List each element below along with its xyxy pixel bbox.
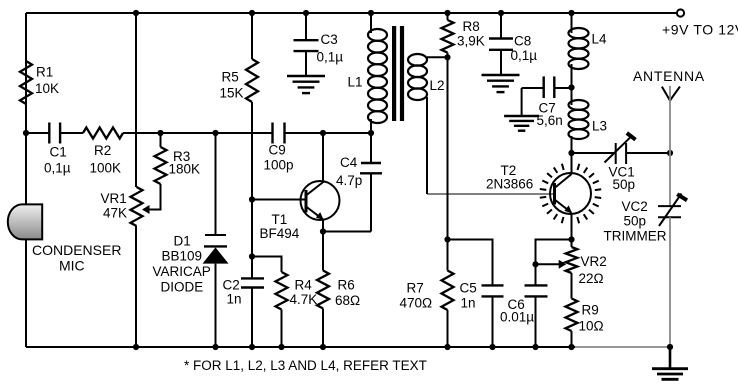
resistor R6 bbox=[317, 271, 329, 309]
node T2 emitter junction bbox=[568, 236, 574, 242]
svg-text:0,1µ: 0,1µ bbox=[511, 48, 538, 63]
svg-text:L1: L1 bbox=[348, 75, 363, 90]
wire C5 to bottom rail bbox=[492, 296, 494, 347]
wire left rail bbox=[25, 13, 27, 347]
node C6 bottom rail bbox=[532, 344, 538, 350]
varicap D1 bbox=[205, 234, 226, 236]
svg-text:50p: 50p bbox=[613, 177, 636, 192]
ground C7 bbox=[521, 88, 523, 116]
svg-text:VARICAP: VARICAP bbox=[153, 264, 211, 279]
resistor R2 bbox=[83, 128, 123, 139]
wire R6 top lead bbox=[322, 232, 324, 271]
svg-text:C5: C5 bbox=[460, 281, 477, 296]
transistor T2 heatsink burst bbox=[595, 188, 601, 191]
svg-text:1n: 1n bbox=[461, 296, 476, 311]
node R9 bottom rail bbox=[568, 344, 574, 350]
svg-text:68Ω: 68Ω bbox=[335, 293, 360, 308]
wire L2 to T2 base bbox=[427, 193, 553, 195]
node ground rail antenna bbox=[667, 344, 673, 350]
svg-text:22Ω: 22Ω bbox=[579, 271, 604, 286]
wire junction to C5 bbox=[448, 240, 493, 286]
wiper VR1 arrow bbox=[148, 209, 161, 211]
wire R8 bottom lead bbox=[447, 53, 449, 58]
wire C2 to bottom rail bbox=[251, 288, 253, 348]
wire collector junction to VC1 bbox=[572, 152, 616, 154]
potentiometer VR1 bbox=[131, 187, 143, 226]
node C5 bottom rail bbox=[489, 344, 495, 350]
wire C7 to L3 L4 junction bbox=[554, 87, 571, 89]
svg-text:CONDENSER: CONDENSER bbox=[32, 242, 121, 258]
wire T2 emitter bbox=[571, 213, 573, 240]
svg-text:4.7p: 4.7p bbox=[336, 173, 362, 188]
node R4 bottom rail bbox=[278, 344, 284, 350]
node top rail L1 bbox=[368, 10, 374, 16]
resistor R7 bbox=[442, 271, 454, 311]
wire T1 collector bbox=[322, 133, 324, 183]
svg-text:50p: 50p bbox=[624, 213, 647, 228]
svg-text:VR2: VR2 bbox=[581, 254, 607, 269]
svg-text:VC2: VC2 bbox=[622, 199, 648, 214]
wire audio line left bbox=[26, 132, 49, 134]
svg-text:0,1µ: 0,1µ bbox=[317, 50, 344, 65]
svg-text:R7: R7 bbox=[407, 281, 424, 296]
svg-text:180K: 180K bbox=[169, 162, 201, 177]
wire R4 bottom lead bbox=[281, 310, 283, 348]
node top rail L4 bbox=[568, 10, 574, 16]
inductor L2 bbox=[427, 56, 448, 58]
svg-text:MIC: MIC bbox=[59, 258, 85, 274]
svg-text:VR1: VR1 bbox=[101, 191, 127, 206]
wire VC1 to antenna pole bbox=[626, 152, 670, 154]
wire VR2 to R9 bbox=[571, 273, 573, 299]
svg-text:C8: C8 bbox=[514, 33, 531, 48]
svg-text:R9: R9 bbox=[582, 303, 599, 318]
wire emitter to C4 bbox=[323, 231, 371, 233]
node R7 bottom rail bbox=[444, 344, 450, 350]
resistor R9 bbox=[566, 299, 578, 332]
svg-text:L4: L4 bbox=[592, 32, 608, 47]
capacitor C6 bbox=[535, 264, 537, 285]
wire C1 to R2 bbox=[60, 132, 83, 134]
transistor T1 bbox=[301, 181, 340, 220]
svg-text:BB109: BB109 bbox=[162, 249, 203, 264]
wire D1 bottom lead bbox=[215, 264, 217, 347]
svg-text:100K: 100K bbox=[90, 161, 122, 176]
capacitor C4 bbox=[361, 162, 381, 164]
capacitor C3 bbox=[305, 13, 307, 40]
capacitor C1 bbox=[48, 123, 50, 144]
svg-text:R4: R4 bbox=[295, 278, 313, 293]
svg-text:R2: R2 bbox=[94, 143, 111, 158]
ground C3 bbox=[287, 75, 325, 77]
svg-text:R6: R6 bbox=[338, 278, 355, 293]
inductor L1 bbox=[370, 13, 372, 33]
resistor R1 bbox=[20, 61, 32, 104]
capacitor C9 bbox=[271, 123, 273, 144]
capacitor C7 bbox=[543, 76, 545, 98]
svg-text:5,6n: 5,6n bbox=[537, 113, 563, 128]
svg-text:T1: T1 bbox=[272, 212, 288, 227]
wire T2 collector bbox=[571, 153, 573, 174]
svg-text:3,9K: 3,9K bbox=[457, 34, 485, 49]
inductor L3 bbox=[571, 88, 573, 106]
wire C9 to L1 bottom bbox=[285, 132, 372, 134]
svg-text:L2: L2 bbox=[430, 78, 445, 93]
node T1 collector junction bbox=[320, 130, 326, 136]
node D1 top junction bbox=[212, 130, 218, 136]
svg-text:0,1µ: 0,1µ bbox=[44, 161, 71, 176]
wire top +V rail bbox=[26, 12, 677, 14]
node R8 L2 junction bbox=[444, 54, 450, 60]
node left-rail/audio junction bbox=[23, 130, 29, 136]
node VR1 bottom rail bbox=[133, 344, 139, 350]
wire base junction to C2 junction bbox=[251, 200, 253, 257]
wire bottom rail gray segment bbox=[575, 346, 670, 348]
svg-text:C9: C9 bbox=[269, 143, 286, 158]
node R3 top junction bbox=[157, 130, 163, 136]
resistor R8 bbox=[442, 20, 454, 53]
wire R3 top lead bbox=[160, 133, 162, 147]
resistor R4 bbox=[276, 272, 288, 310]
capacitor C2 bbox=[241, 277, 264, 279]
svg-text:100p: 100p bbox=[264, 158, 294, 173]
wire R7 bottom lead bbox=[447, 310, 449, 347]
svg-text:470Ω: 470Ω bbox=[400, 296, 433, 311]
svg-text:R1: R1 bbox=[36, 65, 53, 80]
svg-text:4.7K: 4.7K bbox=[290, 292, 318, 307]
svg-text:10K: 10K bbox=[35, 81, 59, 96]
node top rail C8 bbox=[498, 10, 504, 16]
svg-text:D1: D1 bbox=[174, 234, 191, 249]
potentiometer VR2 bbox=[566, 247, 578, 273]
svg-text:L3: L3 bbox=[592, 119, 607, 134]
svg-text:BF494: BF494 bbox=[260, 226, 300, 241]
wire T1 emitter bbox=[322, 219, 324, 232]
svg-text:DIODE: DIODE bbox=[161, 280, 204, 295]
node R6 bottom rail bbox=[320, 344, 326, 350]
wire R6 bottom lead bbox=[322, 309, 324, 348]
wire antenna pole to VC2 bbox=[669, 153, 671, 206]
node T1 base junction bbox=[249, 196, 255, 202]
wiper VR2 arrow bbox=[536, 263, 561, 265]
node C6 wiper junction bbox=[532, 261, 538, 267]
svg-text:ANTENNA: ANTENNA bbox=[633, 68, 705, 84]
trimmer VC1 bbox=[615, 143, 617, 164]
node top rail C3 bbox=[303, 10, 309, 16]
transistor T2 bbox=[550, 173, 591, 214]
antenna symbol bbox=[662, 87, 670, 101]
node top rail R8 bbox=[444, 10, 450, 16]
wire bottom ground rail bbox=[26, 346, 575, 348]
terminal +9V bbox=[677, 9, 684, 16]
node R4 C2 junction bbox=[249, 253, 255, 259]
svg-text:C1: C1 bbox=[50, 145, 67, 160]
node C2 bottom rail bbox=[249, 344, 255, 350]
capacitor C8 bbox=[500, 13, 502, 39]
svg-text:10Ω: 10Ω bbox=[579, 319, 604, 334]
svg-text:1n: 1n bbox=[227, 292, 242, 307]
wire R5 top lead bbox=[251, 13, 253, 59]
node antenna VC1 junction bbox=[667, 150, 673, 156]
wire R8 junction down to R7 bbox=[447, 57, 449, 270]
wire R3 to VR1 wiper bbox=[148, 184, 161, 210]
wire emitter to wiper junction bbox=[536, 240, 572, 265]
wire D1 top lead bbox=[215, 133, 217, 235]
svg-text:R5: R5 bbox=[222, 70, 239, 85]
node L1 bottom junction bbox=[368, 130, 374, 136]
node top rail VR1 feed bbox=[133, 10, 139, 16]
svg-text:C4: C4 bbox=[340, 155, 358, 170]
wire VC2 to ground rail bbox=[669, 217, 671, 347]
ground main bbox=[669, 347, 672, 369]
node R7 C5 junction bbox=[444, 236, 450, 242]
node T1 emitter junction bbox=[320, 228, 326, 234]
wire +V to VR1 bbox=[135, 13, 137, 187]
svg-text:+9V TO 12V: +9V TO 12V bbox=[662, 22, 738, 38]
resistor R3 bbox=[155, 147, 167, 184]
transformer core bbox=[392, 26, 396, 121]
node L4 L3 C7 junction bbox=[568, 84, 574, 90]
condenser mic bbox=[8, 204, 42, 239]
inductor L4 bbox=[571, 13, 573, 33]
resistor R5 bbox=[246, 59, 258, 102]
node D1 bottom rail bbox=[212, 344, 218, 350]
wire VR1 to bottom rail bbox=[135, 226, 137, 347]
trimmer VC2 bbox=[658, 205, 681, 207]
wire R9 bottom lead bbox=[571, 331, 573, 347]
svg-text:0.01µ: 0.01µ bbox=[500, 310, 534, 325]
wire R8 top lead bbox=[447, 13, 449, 20]
svg-text:C2: C2 bbox=[223, 278, 240, 293]
svg-text:TRIMMER: TRIMMER bbox=[604, 229, 667, 244]
svg-text:47K: 47K bbox=[103, 206, 127, 221]
svg-text:R8: R8 bbox=[463, 19, 480, 34]
wire T1 base bbox=[252, 199, 306, 201]
svg-text:2N3866: 2N3866 bbox=[486, 177, 533, 192]
wire R4 top lead bbox=[252, 257, 282, 273]
svg-text:15K: 15K bbox=[220, 86, 244, 101]
wire ground to C7 bbox=[522, 87, 544, 89]
svg-text:C3: C3 bbox=[321, 32, 338, 47]
ground C8 bbox=[482, 74, 520, 76]
capacitor C5 bbox=[482, 284, 504, 286]
svg-text:* FOR L1, L2, L3 AND L4, REFER: * FOR L1, L2, L3 AND L4, REFER TEXT bbox=[184, 358, 427, 373]
wire R5 to base junction bbox=[251, 102, 253, 200]
wire R2 to node C bbox=[123, 132, 273, 134]
node top rail R5 feed bbox=[249, 10, 255, 16]
node T2 collector junction bbox=[568, 150, 574, 156]
